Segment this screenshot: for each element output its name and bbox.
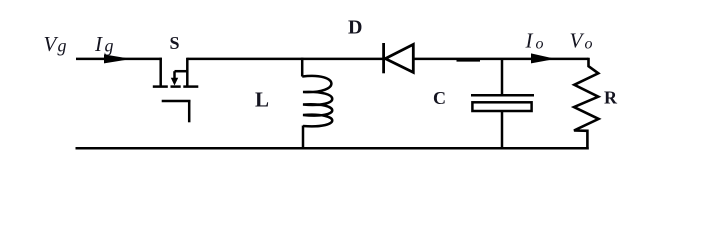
- arrow Io on wire: [531, 53, 556, 63]
- svg-text:C: C: [433, 88, 446, 108]
- inductor bottom lead: [302, 126, 305, 150]
- wire top left from Vg to switch: [76, 58, 162, 61]
- gate bar: [162, 100, 191, 103]
- body arrow head: [171, 78, 178, 86]
- svg-text:S: S: [170, 33, 180, 53]
- diode D: [384, 43, 414, 73]
- channel segment 3: [183, 85, 198, 88]
- capacitor bottom plate box: [472, 102, 531, 111]
- source lead vertical: [186, 58, 189, 86]
- svg-text:o: o: [536, 35, 544, 52]
- wire overlap segment: [457, 59, 481, 62]
- capacitor C: [471, 59, 534, 150]
- channel segment 1: [153, 85, 168, 88]
- inductor L: [302, 58, 332, 150]
- inductor top lead: [301, 58, 304, 77]
- svg-text:V: V: [570, 29, 585, 53]
- svg-text:o: o: [585, 35, 593, 52]
- inductor coil: [302, 76, 332, 126]
- label Ig: [94, 32, 114, 56]
- capacitor top plate: [471, 94, 534, 97]
- svg-text:I: I: [94, 32, 103, 56]
- svg-text:L: L: [255, 87, 269, 111]
- diode cathode bar: [382, 43, 385, 73]
- resistor R: [574, 58, 599, 150]
- body arrow shaft: [173, 71, 176, 79]
- svg-text:g: g: [105, 35, 114, 55]
- drain lead vertical: [159, 58, 162, 86]
- svg-text:V: V: [44, 32, 59, 56]
- diode triangle: [385, 44, 413, 72]
- transistor S (MOSFET): [153, 58, 199, 123]
- label Vg: [44, 32, 67, 56]
- label Io: [525, 29, 544, 53]
- capacitor bottom lead: [501, 111, 504, 150]
- svg-text:D: D: [348, 17, 362, 39]
- arrow Ig on wire: [104, 54, 132, 63]
- svg-text:g: g: [58, 35, 67, 55]
- channel segment 2: [171, 85, 181, 88]
- wire top mid from switch to diode: [187, 58, 383, 61]
- bottom rail wire: [76, 147, 589, 150]
- wire top right from diode to resistor: [414, 58, 589, 61]
- capacitor top lead: [501, 59, 504, 95]
- label Vo: [570, 29, 593, 53]
- body-source connector: [175, 70, 189, 73]
- svg-text:R: R: [604, 88, 618, 108]
- gate lead down: [188, 101, 191, 122]
- svg-text:I: I: [525, 29, 534, 53]
